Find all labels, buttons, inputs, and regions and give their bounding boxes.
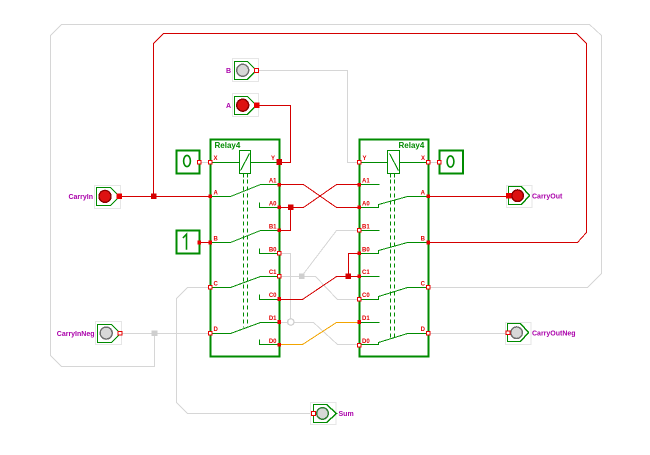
svg-text:C: C bbox=[214, 282, 219, 288]
wire CarryIn to relay1 pin A bbox=[120, 196, 211, 198]
wire relay1 C0 to relay2 C1 bbox=[280, 277, 360, 300]
wire branch to relay2 B0 bbox=[349, 254, 360, 277]
input connector B bbox=[226, 59, 259, 82]
junction C1 net bbox=[346, 273, 352, 279]
svg-text:A: A bbox=[421, 190, 426, 196]
wire input B to relay2 pin Y bbox=[257, 71, 360, 163]
svg-text:C: C bbox=[421, 282, 426, 288]
wire net CarryIn loop to relay2 pin B bbox=[154, 34, 587, 243]
svg-text:D1: D1 bbox=[269, 316, 277, 322]
wire relay1 C to Sum connector bbox=[177, 288, 314, 414]
constant 1 source bbox=[177, 231, 202, 254]
relay U2 Relay4 mirrored bbox=[360, 140, 429, 357]
output connector CarryOut bbox=[506, 186, 563, 208]
svg-text:A0: A0 bbox=[269, 201, 277, 207]
output connector CarryOutNeg bbox=[506, 323, 576, 345]
wire relay1 A0 to relay2 A1 crossing bbox=[280, 185, 360, 208]
wire relay1 A1 to relay2 A0 crossing bbox=[280, 185, 360, 208]
wire relay1 B0 down to D1 net bbox=[280, 254, 291, 323]
svg-text:B0: B0 bbox=[269, 247, 277, 253]
svg-text:Relay4: Relay4 bbox=[215, 141, 241, 150]
junction A0 net bbox=[288, 205, 294, 211]
wire input A to relay1 pin Y bbox=[257, 106, 291, 163]
wire CarryInNeg to relay1 pin D bbox=[121, 333, 211, 335]
relay U1 Relay4 bbox=[211, 140, 280, 357]
svg-text:Y: Y bbox=[363, 156, 367, 162]
wire junction to relay2 B1 bbox=[302, 231, 360, 277]
svg-text:A: A bbox=[226, 103, 231, 110]
svg-text:B1: B1 bbox=[362, 224, 370, 230]
svg-text:C0: C0 bbox=[269, 293, 277, 299]
wire net CarryInNeg big loop bbox=[51, 25, 602, 367]
svg-text:D0: D0 bbox=[269, 339, 277, 345]
svg-text:A: A bbox=[214, 190, 219, 196]
wire relay2 A to CarryOut bbox=[429, 196, 509, 198]
svg-text:C1: C1 bbox=[269, 270, 277, 276]
svg-text:CarryOut: CarryOut bbox=[532, 194, 563, 201]
svg-text:B0: B0 bbox=[362, 247, 370, 253]
input connector CarryInNeg bbox=[57, 322, 122, 345]
output connector Sum bbox=[311, 403, 354, 425]
svg-text:X: X bbox=[214, 156, 218, 162]
svg-text:D: D bbox=[421, 327, 426, 333]
input connector A bbox=[226, 94, 260, 117]
svg-text:Relay4: Relay4 bbox=[399, 141, 425, 150]
svg-text:A1: A1 bbox=[269, 179, 277, 185]
wire relay1 D0 to relay2 D1 bbox=[280, 323, 360, 345]
svg-text:B: B bbox=[421, 237, 426, 243]
wire relay1 A0 to relay1 B1 bbox=[280, 208, 291, 231]
svg-text:B: B bbox=[226, 68, 231, 75]
wire relay1 D1 to relay2 D0 bbox=[280, 323, 360, 345]
wire relay2 D to CarryOutNeg bbox=[429, 333, 508, 335]
junction sum internal net bbox=[299, 273, 305, 279]
svg-text:A1: A1 bbox=[362, 179, 370, 185]
svg-text:C1: C1 bbox=[362, 270, 370, 276]
svg-text:Sum: Sum bbox=[339, 411, 354, 418]
wire const1 to relay1 pin B bbox=[200, 242, 211, 244]
constant 0 source left bbox=[177, 151, 202, 174]
svg-text:X: X bbox=[421, 156, 425, 162]
svg-text:CarryOutNeg: CarryOutNeg bbox=[532, 331, 576, 338]
wire const0 to relay1 pin X bbox=[200, 162, 211, 164]
svg-text:CarryIn: CarryIn bbox=[68, 194, 93, 201]
svg-text:Y: Y bbox=[271, 156, 275, 162]
junction CarryInNeg net bbox=[152, 330, 158, 336]
svg-text:D1: D1 bbox=[362, 316, 370, 322]
svg-text:D0: D0 bbox=[362, 339, 370, 345]
svg-text:B1: B1 bbox=[269, 224, 277, 230]
relay U2 pin markers bbox=[358, 161, 431, 348]
input connector CarryIn bbox=[68, 186, 121, 209]
wire relay2 pin X to const0 bbox=[429, 162, 440, 164]
svg-text:CarryInNeg: CarryInNeg bbox=[57, 331, 95, 338]
relay U1 pin markers bbox=[209, 159, 283, 346]
svg-text:C0: C0 bbox=[362, 293, 370, 299]
svg-text:A0: A0 bbox=[362, 201, 370, 207]
constant 0 source right bbox=[438, 151, 464, 174]
wire relay1 C1 to junction bbox=[280, 276, 302, 278]
junction CarryIn net bbox=[151, 194, 157, 200]
wire junction to relay2 C0 bbox=[302, 277, 360, 300]
svg-text:B: B bbox=[214, 237, 219, 243]
svg-text:D: D bbox=[214, 327, 219, 333]
junction ring D1 net bbox=[288, 319, 294, 325]
